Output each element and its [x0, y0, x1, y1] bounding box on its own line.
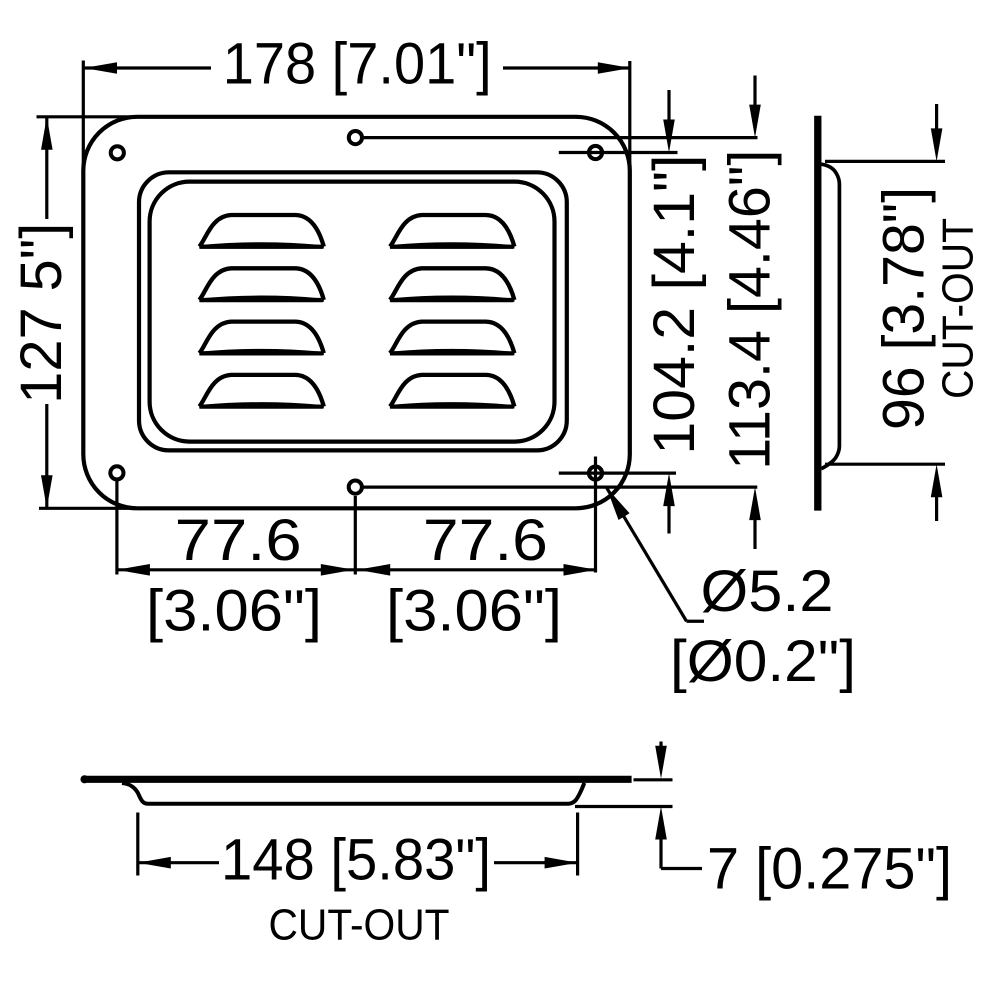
- dimension 96: arrows and tails: [935, 104, 938, 131]
- hole bottom-right: [589, 467, 602, 480]
- hole top-right: [589, 146, 602, 159]
- extension line below bottom-center hole: [354, 496, 357, 575]
- ref line from top-center hole: [364, 136, 758, 139]
- side view: flange plate edge: [814, 116, 821, 511]
- leader line for hole diameter: [607, 488, 687, 622]
- louver row 4 col left: [199, 375, 323, 408]
- svg-text:Ø5.2: Ø5.2: [701, 559, 834, 624]
- extension line below bottom-left hole: [115, 480, 118, 575]
- dimension 113.4: arrows and tails: [753, 76, 756, 108]
- side view: dish profile: [821, 164, 839, 469]
- hole bottom-center: [349, 481, 362, 494]
- extension line through bottom-right hole: [594, 457, 597, 573]
- ref line through bottom-right hole: [559, 472, 676, 475]
- bottom view: flange plate edge: [85, 776, 632, 783]
- hole bottom-left: [110, 466, 123, 479]
- front view: plate outline: [83, 117, 630, 509]
- bottom view: ref lines for thickness: [634, 778, 673, 781]
- louver row 4 col right: [390, 375, 515, 408]
- bottom view: dish profile: [122, 783, 584, 804]
- svg-text:96 [3.78"]: 96 [3.78"]: [872, 187, 937, 430]
- svg-text:178 [7.01"]: 178 [7.01"]: [223, 32, 492, 97]
- dimension 77.6 pair: dimension line and arrows: [117, 568, 597, 571]
- hole top-center: [349, 131, 362, 144]
- svg-text:[3.06"]: [3.06"]: [386, 579, 562, 644]
- svg-text:77.6: 77.6: [175, 508, 302, 573]
- svg-text:[Ø0.2"]: [Ø0.2"]: [670, 629, 856, 694]
- dimension 7: arrows, tails and jog: [659, 742, 662, 750]
- svg-text:148 [5.83"]: 148 [5.83"]: [221, 828, 491, 893]
- dimension 178 top: extension lines: [82, 61, 85, 183]
- louver row 1 col left: [199, 215, 323, 248]
- dimension 127 left: extension lines: [37, 115, 141, 118]
- svg-text:7 [0.275"]: 7 [0.275"]: [707, 837, 952, 902]
- louver row 3 col right: [390, 322, 515, 355]
- hole top-left: [111, 146, 124, 159]
- ref line from bottom-center hole: [364, 486, 758, 489]
- svg-text:[3.06"]: [3.06"]: [146, 579, 322, 644]
- dimension 178 top: dimension line and arrows: [84, 66, 211, 69]
- louver row 1 col right: [390, 215, 515, 248]
- svg-text:127 5"]: 127 5"]: [9, 223, 74, 404]
- louver row 2 col left: [199, 268, 323, 301]
- svg-text:CUT-OUT: CUT-OUT: [269, 900, 450, 949]
- dimension 148: extension lines: [136, 813, 139, 876]
- louver row 2 col right: [390, 268, 515, 301]
- svg-text:CUT-OUT: CUT-OUT: [933, 218, 982, 399]
- front view: dish recess inner edge: [150, 182, 555, 442]
- dimension 127 left: dimension line and arrows: [45, 117, 48, 219]
- svg-text:113.4 [4.46"]: 113.4 [4.46"]: [718, 150, 783, 470]
- svg-text:77.6: 77.6: [423, 508, 548, 573]
- dimension 104.2: arrows and tails: [667, 90, 670, 122]
- svg-text:104.2 [4.1"]: 104.2 [4.1"]: [642, 155, 707, 455]
- front view: dish recess outer edge: [139, 172, 567, 450]
- dimension 148: dimension line and arrows: [138, 861, 219, 864]
- side view: cut-out ref lines: [825, 160, 945, 163]
- louver row 3 col left: [199, 322, 323, 355]
- ref line through top-right hole: [559, 151, 678, 154]
